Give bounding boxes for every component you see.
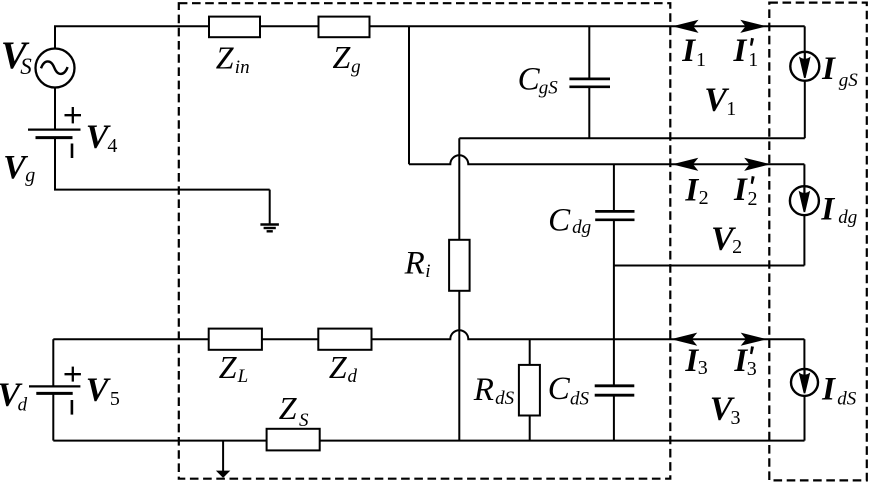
svg-text:5: 5	[110, 388, 120, 410]
ground	[260, 223, 279, 225]
wire: drain row y=339.2	[53, 338, 208, 340]
svg-text:dS: dS	[837, 388, 857, 409]
svg-text:C: C	[548, 203, 571, 239]
svg-text:2: 2	[748, 188, 758, 210]
wire: battery V4 to Vg node	[54, 138, 56, 190]
svg-text:I: I	[821, 51, 836, 87]
V4 minus sign	[71, 144, 74, 159]
current source Idg	[790, 186, 819, 215]
svg-text:in: in	[235, 57, 250, 78]
svg-text:3: 3	[698, 357, 708, 379]
resistor ZS	[267, 429, 320, 451]
svg-text:C: C	[518, 62, 541, 98]
svg-text:Z: Z	[216, 39, 235, 75]
capacitor CdS	[595, 384, 635, 387]
V5 plus sign	[65, 373, 81, 375]
current source IgS	[804, 26, 806, 52]
svg-text:I: I	[733, 33, 748, 69]
wire: CgS bottom rail to IgS	[459, 137, 805, 139]
resistor Zin	[209, 17, 260, 38]
wire: drain row with hop over Ri branch	[372, 330, 805, 339]
svg-text:1: 1	[748, 49, 758, 71]
svg-text:gS: gS	[539, 77, 559, 98]
arrow pair I1/I1' on top rail	[674, 21, 697, 32]
resistor RdS	[529, 339, 531, 365]
svg-text:S: S	[299, 410, 309, 431]
wire: between Zin and Zg	[260, 25, 319, 27]
wire: Zg to IgS corner	[370, 25, 805, 27]
ground arrow below bottom rail	[222, 441, 224, 471]
current source IdS	[803, 339, 805, 369]
wire: Vg node horizontal	[54, 189, 270, 191]
svg-text:C: C	[548, 371, 571, 407]
svg-text:I: I	[733, 172, 748, 208]
wire: bottom rail left of ZS	[53, 440, 266, 442]
svg-text:2: 2	[732, 236, 742, 258]
wire: top rail y=26.3	[55, 26, 209, 48]
battery V5	[52, 339, 54, 386]
svg-text:gS: gS	[839, 70, 859, 91]
wire: Ri branch vertical	[458, 138, 460, 240]
wire: row2 corner down to Idg	[803, 164, 805, 187]
wire: ZL to Zd	[262, 338, 318, 340]
source VS (sine source)	[36, 49, 75, 88]
svg-text:I: I	[820, 192, 835, 228]
svg-text:dg: dg	[572, 217, 591, 238]
wire: row 2 with hop over Ri branch	[409, 155, 804, 164]
capacitor CgS	[588, 26, 590, 77]
svg-text:R: R	[473, 372, 494, 408]
svg-text:L: L	[237, 366, 249, 387]
wire: Cdg down through junctions to CdS	[613, 221, 615, 385]
svg-text:R: R	[404, 246, 425, 282]
svg-text:1: 1	[696, 49, 706, 71]
V5 minus sign	[71, 400, 74, 415]
svg-text:I: I	[684, 173, 699, 209]
resistor Zg	[319, 17, 370, 38]
svg-text:3: 3	[747, 358, 757, 380]
svg-text:V: V	[86, 371, 111, 408]
svg-text:Z: Z	[333, 39, 352, 75]
capacitor Cdg	[613, 164, 615, 210]
wire: Idg bottom to Cdg line	[614, 265, 805, 267]
arrow pair I3/I3' on drain row	[673, 334, 696, 345]
wire: VS to battery V4	[54, 88, 56, 130]
V4 plus sign	[65, 114, 82, 116]
svg-text:g: g	[351, 56, 361, 77]
svg-text:g: g	[25, 165, 35, 187]
resistor Ri	[449, 240, 470, 291]
svg-text:I: I	[681, 33, 696, 69]
svg-text:Z: Z	[329, 349, 348, 385]
svg-text:4: 4	[107, 135, 117, 157]
svg-text:dg: dg	[838, 207, 857, 228]
wire: down to ground	[269, 190, 271, 225]
resistor Zd	[318, 329, 371, 350]
battery V4	[28, 128, 81, 130]
svg-text:dS: dS	[495, 388, 514, 409]
svg-text:i: i	[425, 261, 430, 282]
wire: bottom rail right of ZS	[320, 440, 805, 442]
svg-text:1: 1	[726, 98, 736, 120]
svg-text:Z: Z	[279, 390, 298, 426]
svg-text:S: S	[20, 54, 32, 79]
wire: top rail drop to row 2 (x=409)	[408, 26, 410, 164]
dashed box (intrinsic FET model boundary)	[179, 3, 671, 479]
svg-text:d: d	[348, 366, 358, 387]
svg-text:3: 3	[731, 407, 741, 429]
svg-text:I: I	[821, 371, 836, 407]
arrow pair I2/I2' on row 2	[674, 159, 697, 170]
svg-text:2: 2	[699, 187, 709, 209]
dashed box (dependent-source network)	[769, 3, 867, 481]
svg-text:Z: Z	[219, 349, 238, 385]
svg-text:dS: dS	[570, 388, 590, 409]
svg-text:d: d	[18, 394, 28, 415]
resistor ZL	[209, 329, 262, 350]
